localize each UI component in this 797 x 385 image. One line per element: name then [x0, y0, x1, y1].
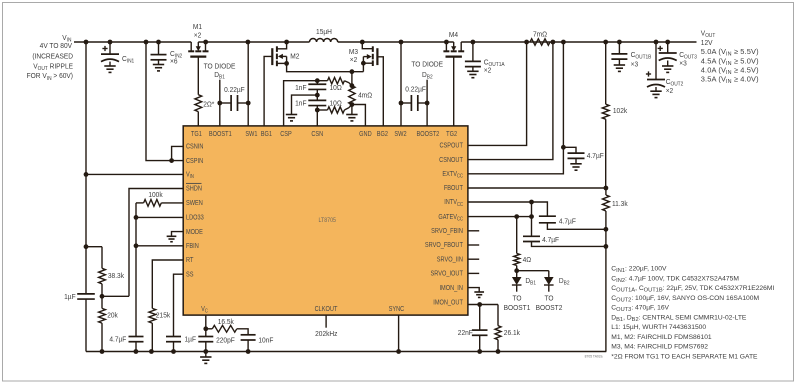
svg-text:SWEN: SWEN	[186, 199, 203, 207]
svg-text:BOOST2: BOOST2	[417, 130, 440, 138]
svg-text:4.7µF: 4.7µF	[587, 153, 605, 160]
svg-text:SRVO_FBIN: SRVO_FBIN	[431, 227, 463, 235]
svg-text:GND: GND	[359, 130, 372, 138]
svg-text:10Ω: 10Ω	[330, 85, 342, 92]
svg-text:SW2: SW2	[394, 130, 406, 138]
svg-text:7mΩ: 7mΩ	[533, 31, 547, 38]
svg-text:SRVO_IIN: SRVO_IIN	[437, 256, 463, 264]
svg-text:IMON_IN: IMON_IN	[439, 284, 463, 292]
svg-text:TO DIODE: TO DIODE	[204, 63, 236, 70]
svg-text:BG1: BG1	[261, 130, 273, 138]
svg-text:M1: M1	[193, 24, 202, 31]
svg-text:26.1k: 26.1k	[504, 330, 521, 337]
svg-text:1µF: 1µF	[64, 293, 76, 300]
svg-text:4V TO 80V: 4V TO 80V	[40, 42, 73, 49]
svg-text:1µF: 1µF	[185, 336, 197, 343]
svg-text:TO DIODE: TO DIODE	[411, 61, 443, 68]
svg-text:BOOST1: BOOST1	[209, 130, 232, 138]
svg-text:2Ω*: 2Ω*	[203, 101, 214, 108]
svg-text:SRVO_IOUT: SRVO_IOUT	[431, 270, 463, 278]
svg-text:4Ω: 4Ω	[523, 257, 532, 264]
svg-text:4.7µF: 4.7µF	[542, 237, 560, 244]
svg-text:×2: ×2	[350, 56, 358, 63]
svg-text:20k: 20k	[107, 312, 118, 319]
svg-text:M3, M4: FAIRCHILD FDMS7692: M3, M4: FAIRCHILD FDMS7692	[611, 344, 708, 351]
svg-text:16.5k: 16.5k	[218, 318, 235, 325]
svg-text:12V: 12V	[701, 40, 713, 47]
svg-text:×3: ×3	[679, 60, 687, 67]
svg-text:CSPOUT: CSPOUT	[439, 142, 462, 150]
svg-text:M3: M3	[349, 49, 358, 56]
svg-text:4.7µF: 4.7µF	[109, 336, 127, 343]
svg-text:CLKOUT: CLKOUT	[315, 305, 338, 313]
svg-text:102k: 102k	[613, 108, 628, 115]
svg-text:(INCREASED: (INCREASED	[32, 53, 73, 60]
svg-text:10nF: 10nF	[258, 337, 274, 344]
svg-text:SRVO_FBOUT: SRVO_FBOUT	[425, 242, 463, 250]
svg-text:0.22µF: 0.22µF	[224, 87, 245, 94]
svg-text:×2: ×2	[194, 32, 202, 39]
svg-text:1nF: 1nF	[295, 85, 307, 92]
svg-text:MODE: MODE	[186, 228, 203, 236]
svg-text:4.7µF: 4.7µF	[559, 218, 577, 225]
svg-text:4mΩ: 4mΩ	[358, 92, 372, 99]
svg-text:BOOST2: BOOST2	[536, 305, 563, 312]
svg-text:RT: RT	[186, 257, 193, 265]
svg-text:8705 TA02a: 8705 TA02a	[585, 354, 603, 358]
svg-text:BOOST1: BOOST1	[504, 305, 531, 312]
svg-text:M1, M2: FAIRCHILD FDMS86101: M1, M2: FAIRCHILD FDMS86101	[611, 334, 712, 341]
svg-text:11.3k: 11.3k	[612, 200, 628, 207]
svg-text:0.22µF: 0.22µF	[405, 86, 426, 93]
svg-text:1nF: 1nF	[295, 100, 307, 107]
svg-text:M2: M2	[290, 53, 299, 60]
svg-text:TG2: TG2	[446, 130, 457, 138]
svg-text:SS: SS	[186, 271, 194, 279]
svg-text:CSN: CSN	[311, 130, 323, 138]
svg-text:10Ω: 10Ω	[330, 100, 342, 107]
svg-text:TO: TO	[544, 295, 554, 302]
svg-text:FBOUT: FBOUT	[444, 185, 463, 193]
svg-text:CSNOUT: CSNOUT	[439, 156, 463, 164]
svg-text:22nF: 22nF	[458, 330, 474, 337]
svg-text:TO: TO	[512, 295, 522, 302]
svg-text:L1: 15µH, WURTH 7443631500: L1: 15µH, WURTH 7443631500	[611, 324, 706, 331]
svg-text:LT8705: LT8705	[318, 218, 335, 224]
svg-text:CSNIN: CSNIN	[186, 143, 204, 151]
svg-text:FBIN: FBIN	[186, 242, 199, 250]
svg-text:BG2: BG2	[377, 130, 389, 138]
svg-text:TG1: TG1	[191, 130, 202, 138]
svg-text:215k: 215k	[156, 312, 171, 319]
svg-text:M4: M4	[449, 32, 458, 39]
svg-text:15µH: 15µH	[316, 28, 332, 35]
svg-text:202kHz: 202kHz	[315, 331, 338, 338]
svg-text:CSP: CSP	[280, 130, 292, 138]
svg-text:*2Ω FROM TG1 TO EACH SEPARATE: *2Ω FROM TG1 TO EACH SEPARATE M1 GATE	[611, 353, 758, 360]
svg-text:IMON_OUT: IMON_OUT	[433, 299, 463, 307]
svg-text:×2: ×2	[484, 67, 492, 74]
svg-text:×6: ×6	[170, 58, 178, 65]
svg-text:38.3k: 38.3k	[108, 272, 125, 279]
svg-text:CSPIN: CSPIN	[186, 157, 203, 165]
svg-text:SHDN: SHDN	[186, 185, 202, 193]
svg-text:100k: 100k	[148, 192, 163, 199]
svg-text:220pF: 220pF	[216, 337, 235, 344]
svg-text:LDO33: LDO33	[186, 214, 204, 222]
svg-text:SW1: SW1	[245, 130, 257, 138]
svg-text:SYNC: SYNC	[389, 305, 405, 313]
svg-text:×3: ×3	[631, 61, 639, 68]
svg-text:×2: ×2	[666, 88, 674, 95]
